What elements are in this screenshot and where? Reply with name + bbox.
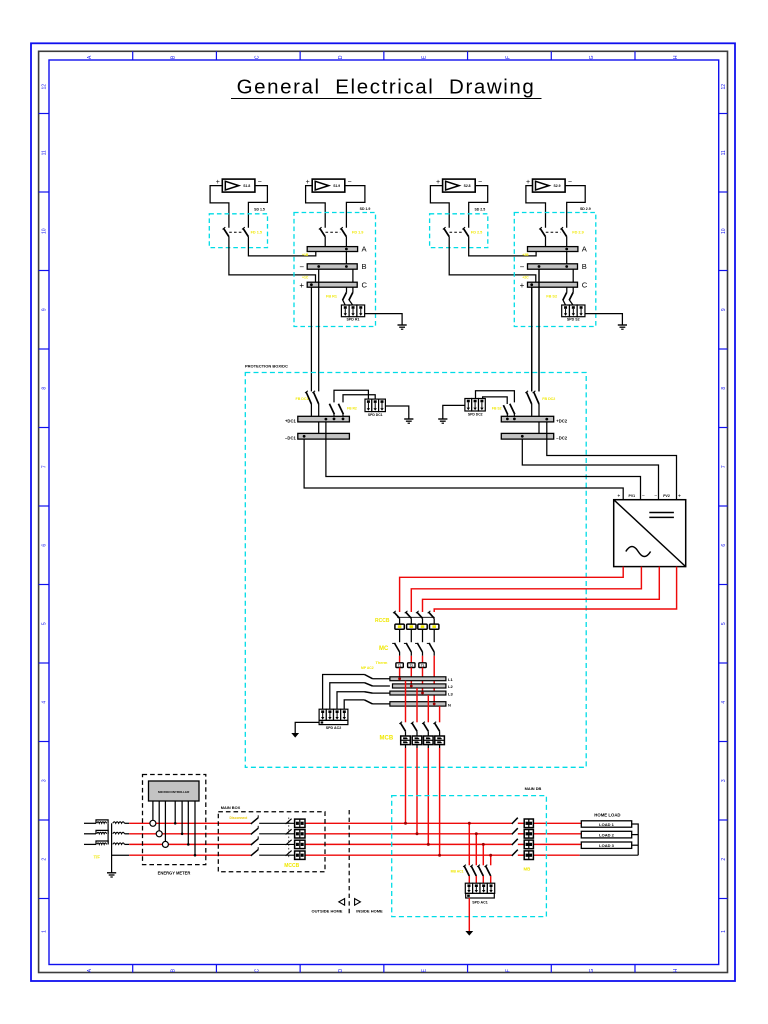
- svg-text:N: N: [448, 702, 451, 707]
- surge arrester SPD DC2: [465, 399, 485, 412]
- svg-text:12: 12: [721, 84, 727, 90]
- svg-text:SPD DC1: SPD DC1: [368, 413, 383, 417]
- wire busbar C down to DC box2: [531, 287, 533, 391]
- svg-text:+1C: +1C: [302, 276, 309, 280]
- svg-text:2: 2: [42, 858, 48, 861]
- svg-text:C: C: [582, 280, 588, 289]
- MAIN DB switch blades to loads: [512, 818, 518, 856]
- svg-text:FB S2: FB S2: [546, 295, 557, 299]
- busbar B: [307, 264, 357, 269]
- wire inverter AC out L2 (red): [411, 567, 641, 612]
- utility grid stubs: [84, 823, 96, 844]
- wire SPD DC1 to ground: [385, 406, 408, 419]
- busbar +DC1: [298, 416, 350, 422]
- transformer star point and earth conductor: [111, 823, 113, 872]
- wire PV3 switch left to busbar C2: [449, 237, 536, 283]
- svg-text:11: 11: [721, 150, 727, 155]
- wires loads to neutral return: [632, 824, 639, 855]
- ground symbol SPD DC1: [404, 419, 413, 423]
- svg-text:SD 1.9: SD 1.9: [360, 207, 371, 211]
- busbar B2: [528, 264, 578, 269]
- wires rows to SPD AC1: [468, 822, 492, 866]
- wire PV1 switch left to busbar C: [229, 237, 316, 283]
- svg-text:9: 9: [721, 308, 727, 311]
- svg-text:+: +: [617, 494, 620, 500]
- svg-text:FB DC1: FB DC1: [296, 397, 309, 401]
- svg-text:SPD R1: SPD R1: [347, 318, 360, 322]
- svg-text:MAIN DB: MAIN DB: [525, 786, 542, 791]
- svg-text:T/F: T/F: [94, 854, 101, 859]
- switch blades above SPD AC1: [463, 865, 491, 876]
- svg-text:H: H: [673, 968, 679, 972]
- svg-text:MAIN BOX: MAIN BOX: [221, 805, 241, 810]
- svg-text:FD 1.5: FD 1.5: [251, 231, 262, 235]
- svg-text:7: 7: [721, 465, 727, 468]
- ground triangle SPD AC2: [291, 733, 299, 738]
- svg-text:B: B: [362, 262, 367, 271]
- wires RCCB to MC contactor: [400, 629, 435, 642]
- svg-text:8: 8: [721, 387, 727, 390]
- svg-text:LOAD 3: LOAD 3: [599, 843, 614, 848]
- svg-text:−DC2: −DC2: [556, 436, 567, 441]
- busbar -DC2: [501, 433, 553, 439]
- protection box DC cyan dashed outline: [245, 373, 586, 768]
- svg-text:5: 5: [42, 622, 48, 625]
- svg-text:−: −: [478, 179, 482, 186]
- wire PV4 panel to switches: [526, 186, 546, 228]
- border frame inner blue rect: [49, 60, 719, 965]
- wire PV3 switch right to busbar A2: [469, 237, 536, 256]
- svg-text:3: 3: [721, 779, 727, 782]
- svg-text:6: 6: [42, 544, 48, 547]
- RCCB breaker boxes: [395, 618, 439, 629]
- MCB fuse boxes: [401, 731, 445, 744]
- wires busbars to SPD AC2: [323, 675, 390, 710]
- RCCB switch blades: [393, 611, 435, 618]
- svg-text:B: B: [171, 968, 177, 972]
- wire SPD AC1 to ground (red): [468, 898, 470, 931]
- svg-text:Disconnect: Disconnect: [230, 816, 249, 820]
- svg-text:−: −: [654, 493, 657, 499]
- PV panel PV3: [436, 179, 482, 192]
- svg-text:FD 2.9: FD 2.9: [572, 231, 583, 235]
- wire busbar A to B: [345, 252, 347, 264]
- disconnect switch blades FD 1.9: [319, 227, 325, 236]
- thermal relay boxes T1 T2 T3: [396, 663, 426, 668]
- svg-text:+2B: +2B: [522, 253, 529, 257]
- switch box SD 1.5 (cyan dashed): [209, 214, 267, 248]
- microcontroller box: [149, 781, 200, 801]
- inverter terminal labels: [617, 493, 681, 500]
- svg-text:L3: L3: [448, 691, 453, 696]
- svg-text:FD 2.5: FD 2.5: [471, 231, 482, 235]
- svg-text:A: A: [87, 55, 93, 59]
- svg-text:Therm: Therm: [376, 660, 388, 665]
- border column ticks top/bottom: [133, 51, 635, 972]
- svg-text:FD 1.9: FD 1.9: [352, 231, 363, 235]
- svg-text:MB: MB: [524, 866, 531, 871]
- svg-text:E: E: [422, 55, 428, 59]
- svg-text:F: F: [505, 969, 511, 972]
- svg-text:G: G: [589, 55, 595, 59]
- svg-text:1: 1: [42, 930, 48, 933]
- MAIN BOX fuses: [295, 819, 305, 859]
- switch blades FB DC1: [305, 391, 311, 404]
- svg-text:S2.9: S2.9: [554, 184, 561, 188]
- svg-text:FB R2: FB R2: [347, 406, 357, 410]
- switch blades to SPD DC1: [333, 414, 335, 416]
- svg-text:+: +: [299, 281, 304, 290]
- svg-text:INSIDE HOME: INSIDE HOME: [356, 909, 383, 914]
- wire busbar B to C right2: [572, 269, 574, 282]
- wire busbar A to B2: [566, 252, 568, 264]
- svg-text:+: +: [678, 494, 681, 500]
- svg-text:+2C: +2C: [522, 276, 529, 280]
- combiner box cyan dashed (right group): [514, 213, 596, 327]
- wire busbar B down through C to DC box: [318, 269, 320, 391]
- busbar +DC2: [501, 416, 553, 422]
- transformer delta closure: [107, 823, 109, 844]
- svg-text:2: 2: [721, 858, 727, 861]
- svg-text:L2: L2: [448, 684, 453, 689]
- switch blades FB above SPD SPD R1: [346, 287, 348, 292]
- wires MCB down to main distribution (red): [406, 745, 440, 856]
- surge arrester SPD S2: [562, 305, 585, 317]
- energy meter dashed box: [143, 775, 206, 865]
- svg-text:SD 2.9: SD 2.9: [580, 207, 591, 211]
- surge arrester SPD DC1: [365, 399, 385, 412]
- svg-text:9: 9: [42, 308, 48, 311]
- disconnect switch blades FD 1.5: [223, 227, 229, 236]
- wire -DC1 to inverter +PV1: [304, 439, 623, 500]
- svg-text:T1: T1: [398, 664, 402, 668]
- wire PV1 panel to switches: [210, 186, 229, 228]
- svg-text:MB AC1: MB AC1: [451, 870, 464, 874]
- svg-text:4: 4: [721, 701, 727, 704]
- svg-text:S1.9: S1.9: [333, 184, 340, 188]
- svg-text:PV2: PV2: [663, 494, 670, 498]
- svg-text:L1: L1: [448, 677, 453, 682]
- svg-text:S1.8: S1.8: [243, 184, 250, 188]
- svg-text:5: 5: [721, 622, 727, 625]
- wire SPD AC2 to ground: [295, 722, 319, 733]
- busbar A: [307, 247, 357, 252]
- wire SPD R1 to ground: [365, 314, 402, 325]
- svg-text:T3: T3: [421, 664, 425, 668]
- svg-text:C: C: [254, 55, 260, 59]
- surge arrester SPD AC1: [465, 883, 494, 893]
- svg-text:SD 2.5: SD 2.5: [474, 207, 485, 211]
- load box LOAD 3: [581, 842, 631, 848]
- svg-text:S2.8: S2.8: [464, 184, 471, 188]
- svg-text:C: C: [362, 280, 368, 289]
- svg-text:10: 10: [721, 228, 727, 234]
- svg-text:MC: MC: [379, 646, 389, 652]
- svg-text:MICROCONTROLLER: MICROCONTROLLER: [158, 790, 190, 794]
- svg-text:−: −: [568, 179, 572, 186]
- svg-text:−: −: [258, 179, 262, 186]
- busbar L2: [393, 684, 446, 688]
- wire busbar B to C right: [352, 269, 354, 282]
- MCB switch blades: [399, 722, 439, 732]
- busbar N: [390, 702, 446, 706]
- outside/inside home separator dashed line: [348, 810, 350, 914]
- svg-text:C: C: [254, 968, 260, 972]
- ground triangle SPD AC1: [465, 931, 473, 936]
- svg-text:H: H: [673, 55, 679, 59]
- wire switches to +DC2/-DC2 busbars: [531, 404, 533, 416]
- wire PV2 panel to switches: [306, 186, 326, 228]
- MAIN DB cyan dashed outline: [392, 796, 547, 917]
- svg-text:E: E: [422, 968, 428, 972]
- MAIN BOX disconnect switch blades: [251, 815, 295, 856]
- wire switches to +DC1/-DC1 busbars: [310, 404, 312, 416]
- arrow inside home: [355, 899, 361, 906]
- MAIN BOX dashed outline: [218, 812, 325, 872]
- svg-text:11: 11: [42, 150, 48, 155]
- distribution phase rows L1 L2 L3 (red) and N: [129, 823, 638, 855]
- svg-text:−: −: [642, 493, 645, 499]
- transformer secondary windings: [113, 822, 129, 845]
- svg-text:FB S2: FB S2: [492, 406, 502, 410]
- svg-text:10: 10: [42, 228, 48, 234]
- svg-text:SPD S2: SPD S2: [567, 318, 580, 322]
- svg-text:G: G: [589, 969, 595, 973]
- svg-text:−: −: [299, 263, 304, 272]
- PV panel PV4: [526, 179, 572, 192]
- wire inverter AC out L1 (red): [400, 567, 624, 612]
- svg-text:F: F: [505, 56, 511, 59]
- svg-text:+1B: +1B: [302, 253, 309, 257]
- svg-text:−: −: [348, 179, 352, 186]
- disconnect switch blades FD 2.5: [443, 227, 449, 236]
- switch blades FB DC2: [525, 391, 531, 404]
- svg-text:MCB: MCB: [380, 736, 394, 742]
- load box LOAD 2: [581, 831, 631, 838]
- wire PV3 panel to switches: [430, 186, 449, 228]
- svg-text:MP AC2: MP AC2: [361, 666, 374, 670]
- svg-text:+DC2: +DC2: [556, 418, 567, 423]
- transformer ground symbol: [107, 873, 116, 877]
- wire busbar C down to DC box: [310, 287, 312, 391]
- wire SPD S2 to ground: [585, 314, 622, 325]
- svg-text:FB R1: FB R1: [326, 295, 337, 299]
- svg-text:B: B: [582, 262, 587, 271]
- switch blades to SPD DC2: [513, 414, 515, 416]
- svg-text:1: 1: [721, 930, 727, 933]
- disconnect switch blades FD 2.9: [539, 227, 545, 236]
- PV panel PV2: [306, 179, 352, 192]
- switch box SD 2.5 (cyan dashed): [430, 214, 488, 248]
- transformer T/F primary windings: [96, 820, 108, 845]
- svg-text:LOAD 1: LOAD 1: [599, 822, 614, 827]
- ground symbol SPD R1: [398, 325, 407, 329]
- svg-text:HOME LOAD: HOME LOAD: [594, 813, 620, 818]
- busbar C2: [528, 282, 578, 287]
- surge arrester SPD AC2: [319, 709, 348, 720]
- svg-text:SPD AC2: SPD AC2: [326, 726, 341, 730]
- svg-text:SPD AC1: SPD AC1: [472, 901, 487, 905]
- svg-text:SD 1.5: SD 1.5: [254, 207, 265, 211]
- busbar A2: [528, 247, 578, 252]
- wires blades to SPD AC1: [469, 876, 490, 883]
- svg-text:+DC1: +DC1: [285, 418, 296, 423]
- svg-text:B: B: [171, 55, 177, 59]
- svg-text:7: 7: [42, 465, 48, 468]
- wire +DC2 to inverter +PV2: [547, 422, 677, 500]
- svg-text:12: 12: [42, 84, 48, 90]
- border row ticks left/right: [39, 114, 728, 899]
- load box LOAD 1: [581, 821, 631, 827]
- svg-text:SPD DC2: SPD DC2: [468, 412, 483, 416]
- svg-text:−: −: [520, 263, 525, 272]
- svg-text:A: A: [87, 968, 93, 972]
- combiner box cyan dashed (left group): [294, 213, 376, 327]
- svg-text:PV1: PV1: [628, 494, 635, 498]
- PV panel PV1: [216, 179, 262, 192]
- ground symbol SPD DC2: [438, 419, 447, 423]
- surge arrester SPD R1: [341, 305, 364, 317]
- MAIN DB fuses to loads: [524, 819, 533, 860]
- busbar L3: [390, 691, 446, 695]
- svg-text:4: 4: [42, 701, 48, 704]
- svg-text:FB DC2: FB DC2: [542, 397, 555, 401]
- junction dots on busbars: [398, 677, 401, 680]
- busbar -DC1: [298, 433, 350, 439]
- svg-text:RCCB: RCCB: [375, 618, 390, 624]
- wire busbar B down through C to DC box2: [538, 269, 540, 391]
- transformer neutral wire: [112, 854, 130, 856]
- wire inverter AC out N (red): [434, 567, 676, 612]
- wire SPD DC2 to ground: [443, 405, 465, 418]
- svg-text:6: 6: [721, 544, 727, 547]
- wire right group down to FB DC2 switches: [531, 287, 533, 391]
- wire -DC2 to inverter -PV2: [522, 439, 658, 500]
- inverter U1 box: [614, 500, 686, 567]
- svg-text:+: +: [520, 281, 525, 290]
- MC contactor blades: [392, 643, 434, 652]
- svg-text:LOAD 2: LOAD 2: [599, 833, 614, 838]
- svg-text:PROTECTION BOX/DC: PROTECTION BOX/DC: [245, 363, 288, 368]
- svg-text:D: D: [338, 968, 344, 972]
- svg-text:8: 8: [42, 387, 48, 390]
- svg-text:MCCB: MCCB: [284, 863, 299, 869]
- busbar C: [307, 282, 357, 287]
- ground symbol SPD S2: [618, 325, 627, 329]
- wires MC to thermal relays: [400, 652, 423, 663]
- wires thermal relays to busbars: [400, 652, 435, 702]
- arrow outside home: [339, 899, 345, 906]
- MAIN BOX linked isolator blades: [286, 818, 292, 858]
- wire inverter AC out L3 (red): [423, 567, 660, 612]
- wires busbars down to MCB: [406, 681, 440, 723]
- svg-text:D: D: [338, 55, 344, 59]
- wire PV4 switches to busbar A2: [545, 237, 547, 247]
- voltage tap wires from microcontroller: [174, 801, 196, 857]
- svg-text:ENERGY METER: ENERGY METER: [158, 870, 191, 875]
- busbar L1: [390, 677, 446, 681]
- wire PV1 switch right to busbar A: [248, 237, 315, 256]
- border row numbers 12-1: [42, 84, 727, 933]
- svg-text:3: 3: [42, 779, 48, 782]
- wire +DC1 to inverter -PV1: [326, 422, 641, 500]
- svg-text:T2: T2: [410, 664, 414, 668]
- wire PV2 switches to busbar A: [324, 237, 326, 247]
- border column letters A-H: [87, 55, 679, 972]
- switch blades FB above SPD SPD S2: [566, 287, 568, 292]
- svg-text:−DC1: −DC1: [285, 436, 296, 441]
- svg-text:OUTSIDE HOME: OUTSIDE HOME: [312, 909, 343, 914]
- junction dots incoming feeders: [404, 822, 441, 857]
- CT coil wires from microcontroller: [150, 801, 169, 847]
- svg-text:General Electrical Drawing: General Electrical Drawing: [237, 76, 536, 99]
